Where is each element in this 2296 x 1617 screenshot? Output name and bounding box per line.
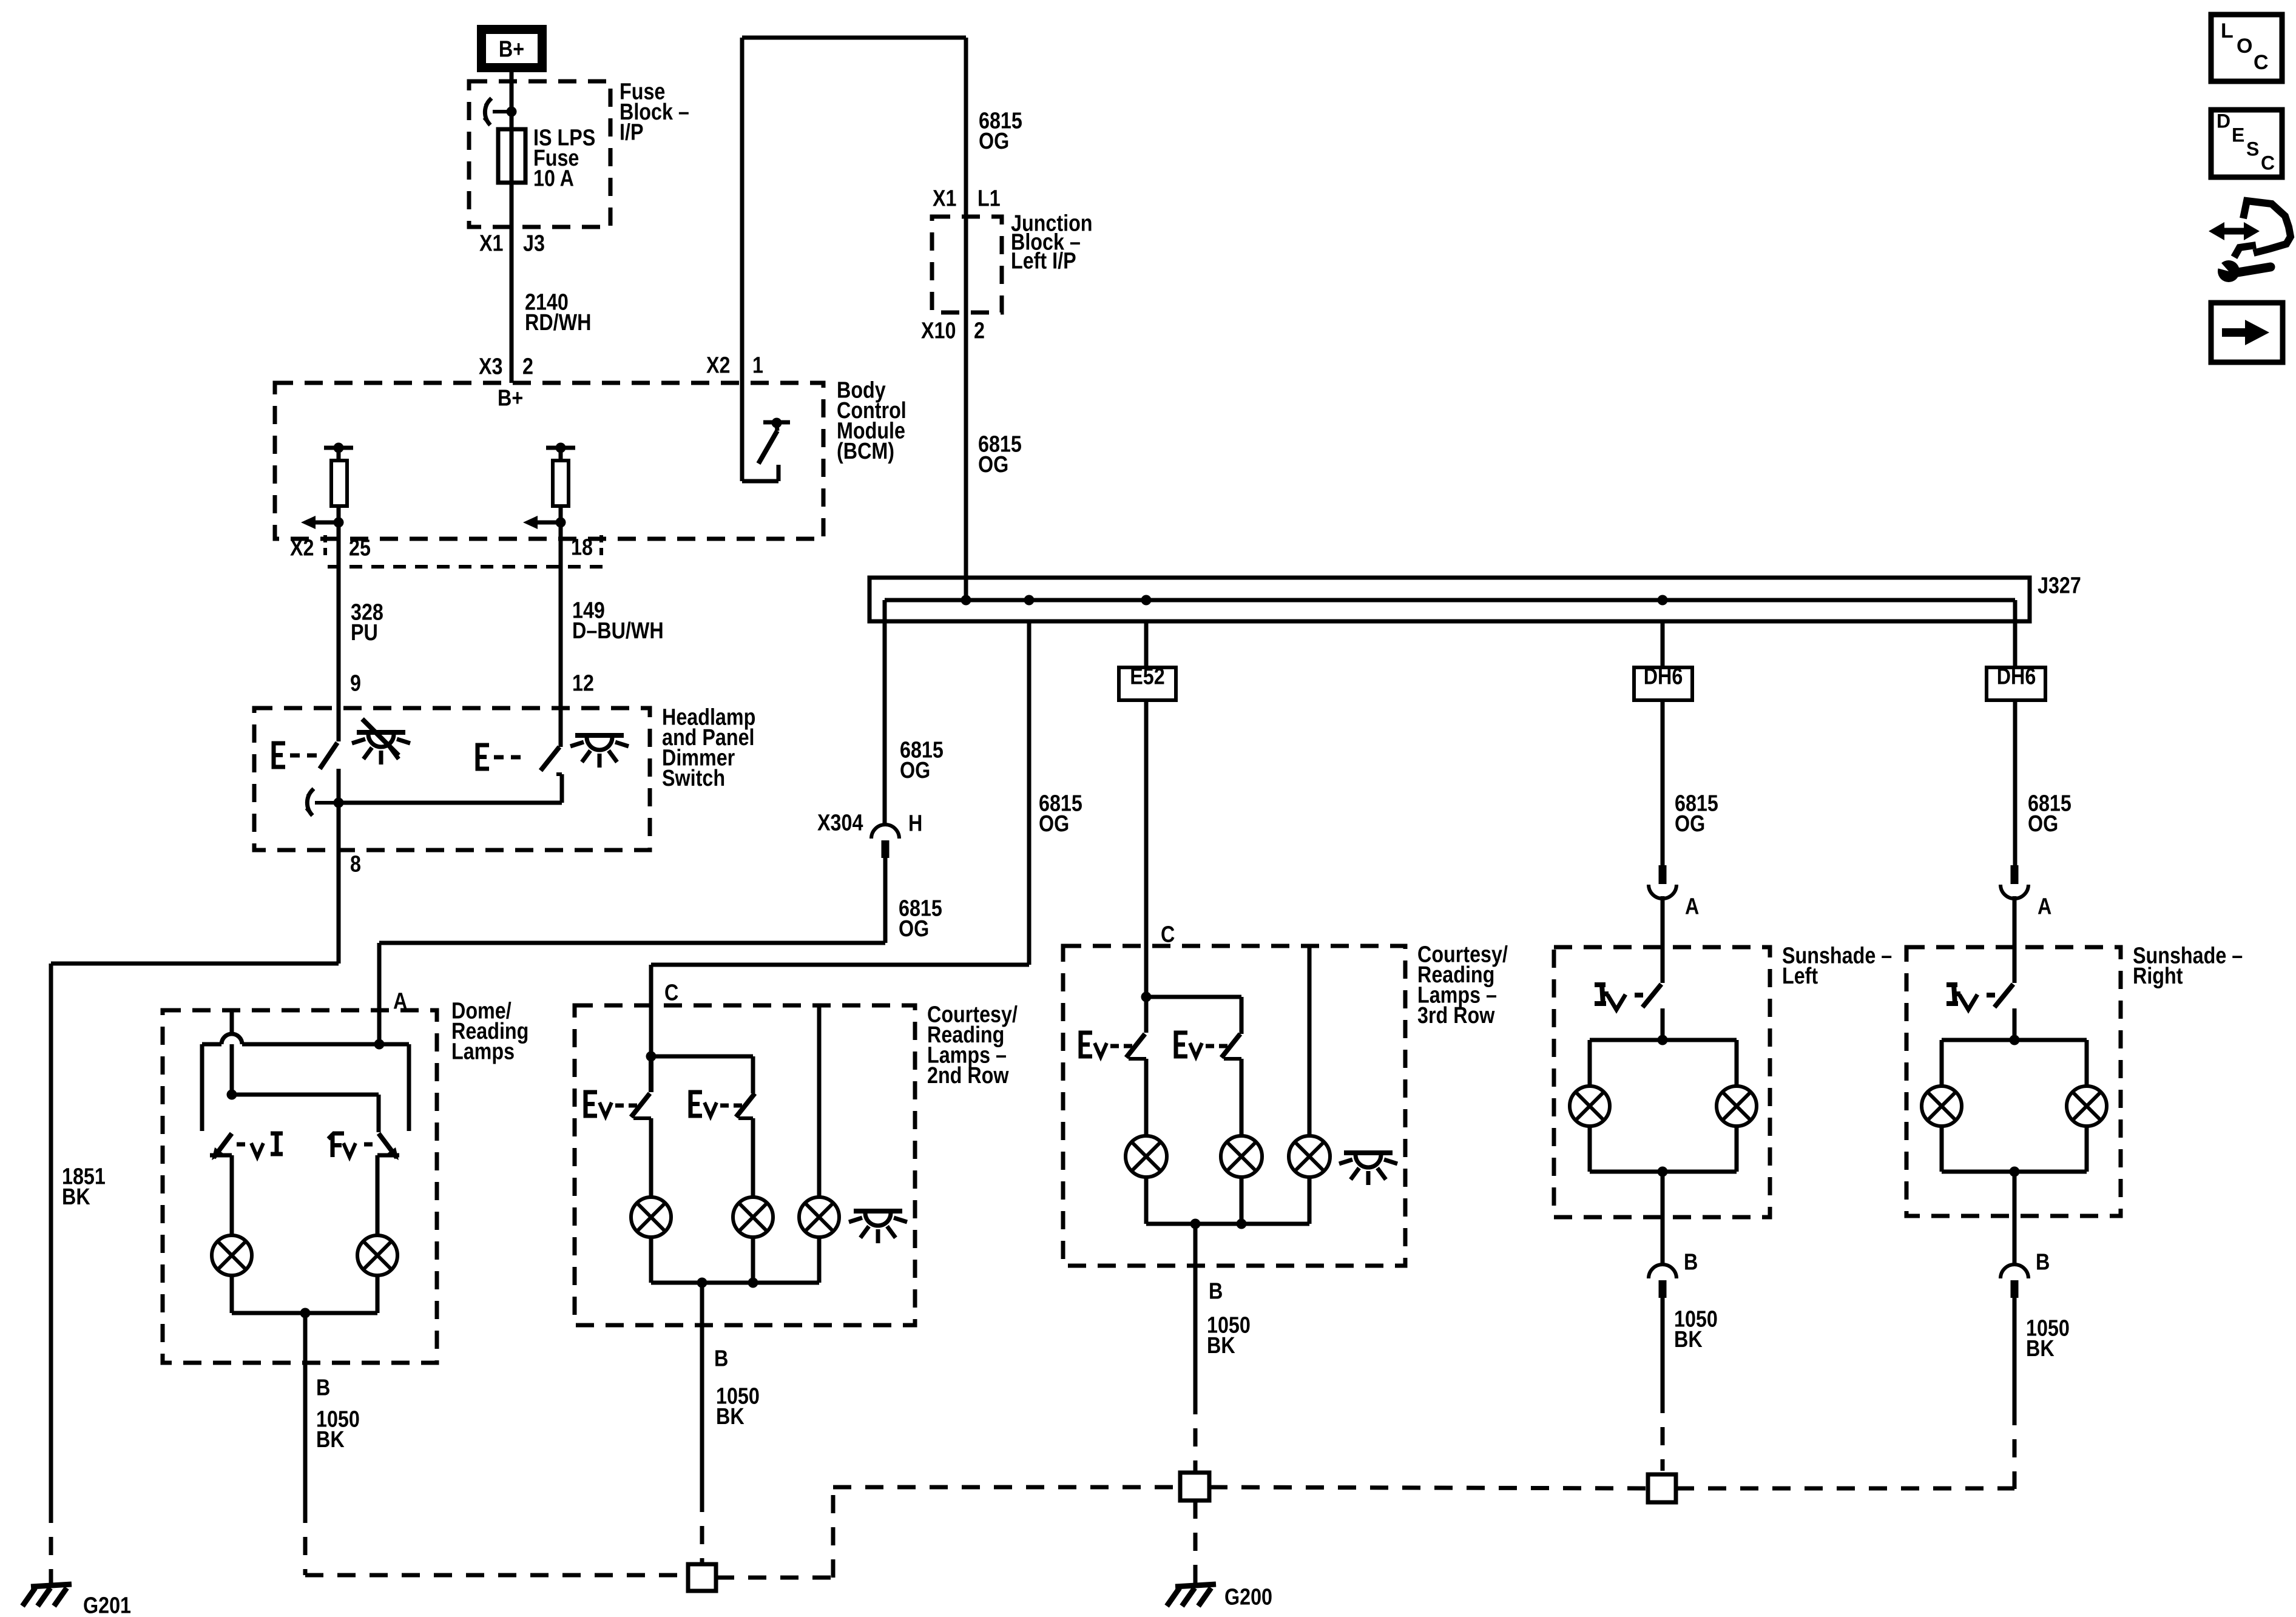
sunshade left lamp 1	[1570, 1086, 1610, 1126]
svg-text:OG: OG	[2028, 811, 2058, 837]
node sunshade right bottom junction	[2010, 1167, 2020, 1177]
node sunshade left bottom junction	[1658, 1167, 1668, 1177]
svg-text:X304: X304	[817, 810, 863, 836]
svg-text:G200: G200	[1224, 1584, 1272, 1610]
svg-text:O: O	[2237, 35, 2252, 58]
fuse F1 IS LPS 10A	[498, 129, 525, 183]
splice S1	[688, 1564, 716, 1591]
svg-text:8: 8	[350, 851, 361, 877]
Sunshade Left dashed box	[1554, 947, 1770, 1217]
sunshade right lamp 1	[1922, 1086, 1962, 1126]
BCM left output arrow	[312, 521, 339, 525]
dome bottom rail	[232, 1311, 377, 1315]
3rd row switch 1 icon E v dashes	[1081, 1033, 1092, 1056]
wire ground run G200 to sunshade left splice	[1209, 1487, 1648, 1488]
sunshade right lamp loop	[1942, 1038, 2087, 1042]
svg-text:OG: OG	[978, 452, 1008, 478]
BCM right load resistor branch pin 18	[546, 446, 575, 450]
svg-text:BK: BK	[316, 1427, 345, 1453]
wire 149 D-BU/WH BCM pin18 to dimmer pin12	[559, 539, 563, 747]
2nd row switch 1 icon E v dashes	[586, 1092, 597, 1116]
wire bus to DH6 right	[2013, 621, 2017, 865]
svg-text:L: L	[2221, 19, 2234, 42]
2nd row switch 1 contact	[633, 1116, 651, 1120]
svg-text:2nd Row: 2nd Row	[927, 1063, 1009, 1089]
wire BCM X2-1 up and over to junction block	[740, 38, 745, 481]
power symbol B+ battery feed box	[482, 30, 542, 68]
svg-text:Switch: Switch	[662, 766, 725, 791]
2nd row lamp 1	[631, 1197, 671, 1237]
dimmer right switch blade	[541, 747, 559, 771]
svg-text:C: C	[1161, 922, 1175, 947]
svg-text:C: C	[2261, 152, 2275, 174]
dimmer switch E icon left	[274, 743, 285, 767]
courtesy lamp icon 3rd row	[1344, 1150, 1393, 1155]
sunshade left lamp 2	[1717, 1086, 1757, 1126]
wire dimmer pin8 down	[337, 803, 341, 964]
connector A sunshade left	[1659, 865, 1667, 884]
panel lamp icon	[575, 733, 624, 738]
wire 6815 OG bus to X304	[883, 621, 887, 825]
dome left contact	[210, 1153, 232, 1158]
svg-text:X2: X2	[706, 353, 730, 378]
wire 328 PU BCM pin25 to dimmer pin9	[337, 539, 341, 741]
wire ground run splice S2 to sunshade right	[1676, 1487, 2014, 1491]
node 3rd row lamp2 junction	[1237, 1219, 1247, 1229]
svg-text:A: A	[2038, 894, 2051, 919]
svg-text:B: B	[714, 1346, 728, 1371]
wire ground run corner to G200 splice	[833, 1485, 1180, 1490]
node bus junction E52 drop	[1141, 595, 1152, 606]
svg-text:OG: OG	[979, 129, 1009, 154]
wire B+ to fuse	[510, 72, 514, 130]
3rd row switch 1 blade	[1144, 997, 1149, 1033]
dome lamp left	[212, 1235, 252, 1275]
dome right switch icon F v dash	[328, 1133, 344, 1157]
wire bus to DH6 left	[1661, 621, 1665, 865]
svg-text:OG: OG	[1039, 811, 1069, 837]
svg-text:G201: G201	[83, 1593, 131, 1617]
sunshade right switch blade	[1994, 984, 2013, 1007]
wire through junction block	[964, 218, 968, 600]
node bus junction DH6 left drop	[1658, 595, 1668, 606]
BCM left load resistor branch pin 25	[324, 446, 353, 450]
node 2nd row B junction	[697, 1278, 707, 1288]
node dome switch feed junction	[227, 1090, 237, 1100]
Body Control Module BCM dashed box	[275, 383, 823, 539]
legend icon hand with arrow and wrench	[2243, 201, 2291, 253]
Dome Reading Lamps dashed box	[163, 1010, 437, 1363]
svg-text:X3: X3	[479, 354, 502, 379]
svg-text:B+: B+	[499, 36, 524, 62]
connector B sunshade left	[1649, 1264, 1676, 1278]
Courtesy Reading Lamps 2nd Row dashed box	[575, 1005, 915, 1325]
3rd row bottom rail	[1146, 1222, 1309, 1226]
wire bus to E52 to 3rd row	[1144, 621, 1149, 997]
wire G200 splice down to ground	[1194, 1501, 1198, 1579]
svg-text:BK: BK	[716, 1404, 745, 1430]
node 3rd row C junction	[1141, 992, 1152, 1002]
dome right contact	[377, 1153, 399, 1158]
node sunshade right top junction	[2010, 1035, 2020, 1045]
wire 3rd row B 1050 BK	[1194, 1224, 1198, 1396]
svg-text:X10: X10	[921, 318, 956, 343]
node dimmer common junction	[334, 798, 344, 808]
dome stub with crossover hop	[230, 1010, 234, 1035]
node 2nd row lamp2 junction	[748, 1278, 758, 1288]
node bus junction feed	[961, 595, 971, 606]
connector B sunshade right	[2001, 1264, 2028, 1278]
Headlamp and Panel Dimmer Switch dashed box	[254, 708, 650, 850]
3rd row switch 2 contact	[1224, 1057, 1241, 1061]
svg-text:Left I/P: Left I/P	[1011, 248, 1076, 274]
svg-text:B: B	[2036, 1249, 2050, 1275]
fuse pull tab icon	[485, 98, 491, 125]
svg-text:D–BU/WH: D–BU/WH	[572, 618, 664, 644]
wire 6815 OG X304 to dome lamp A	[883, 858, 888, 943]
svg-text:E: E	[2232, 124, 2244, 146]
3rd row lamp 2	[1221, 1136, 1262, 1177]
dimmer lower contacts and common	[556, 772, 562, 776]
svg-text:C: C	[664, 980, 678, 1005]
svg-text:Lamps: Lamps	[451, 1039, 515, 1064]
wire 1050 BK sunshade left to splice	[1661, 1297, 1665, 1395]
legend icon DESC box	[2211, 110, 2282, 177]
connector X2 ticks and boundary	[323, 535, 327, 559]
sunshade left switch blade	[1643, 984, 1661, 1007]
wire 1050 BK sunshade right to splice	[2013, 1297, 2017, 1407]
legend icon LOC box	[2211, 15, 2282, 81]
panel lamp icon with slash	[357, 730, 405, 735]
dome inner frame top rail	[202, 1042, 221, 1047]
wire 1851 BK to ground G201	[51, 962, 339, 966]
wire ground run dome B to splice S1	[305, 1573, 688, 1578]
svg-text:2: 2	[974, 318, 985, 343]
svg-text:X1: X1	[933, 186, 956, 211]
3rd row switch 2 blade	[1221, 1034, 1240, 1058]
node 2nd row C junction	[646, 1052, 657, 1062]
sunshade left switch icon	[1595, 985, 1609, 1004]
svg-text:2: 2	[522, 354, 533, 379]
legend icon next-page arrow box	[2211, 303, 2283, 362]
wire 6815 OG bus to 2nd row C	[1027, 621, 1032, 965]
BCM internal switch	[763, 420, 790, 425]
dome right switch blade	[379, 1133, 397, 1158]
wire dome B 1050 BK	[303, 1313, 308, 1505]
wire fuse to BCM X3-2	[510, 183, 514, 383]
Junction Block Left I/P dashed box	[932, 217, 1002, 312]
svg-text:10 A: 10 A	[533, 166, 574, 191]
svg-text:B: B	[316, 1375, 330, 1400]
svg-text:X2: X2	[290, 535, 314, 561]
svg-text:3rd Row: 3rd Row	[1417, 1003, 1495, 1028]
dimmer left switch blade	[320, 743, 337, 769]
svg-text:1: 1	[752, 353, 763, 378]
wire sunshade right B	[2013, 1172, 2017, 1264]
node 3rd row B junction	[1190, 1219, 1201, 1229]
2nd row lamp 3 always on	[817, 1005, 822, 1197]
svg-text:OG: OG	[899, 916, 929, 942]
dimmer switch E icon right	[478, 745, 489, 769]
node fuse feed junction	[507, 107, 517, 117]
svg-text:E52: E52	[1130, 664, 1164, 689]
wire ground run splice S1 to corner	[716, 1576, 833, 1580]
node bus junction 2nd row drop	[1024, 595, 1035, 606]
2nd row lamp 2	[733, 1197, 773, 1237]
svg-text:RD/WH: RD/WH	[525, 310, 591, 336]
svg-text:(BCM): (BCM)	[837, 439, 894, 464]
2nd row bottom rail	[651, 1281, 819, 1285]
svg-text:DH6: DH6	[1644, 664, 1683, 689]
2nd row switch 1 blade	[649, 1056, 653, 1092]
svg-text:BK: BK	[62, 1184, 90, 1210]
svg-text:12: 12	[572, 670, 594, 696]
node dome B junction	[300, 1308, 311, 1318]
svg-text:B: B	[1209, 1278, 1223, 1304]
Courtesy Reading Lamps 3rd Row dashed box	[1063, 946, 1405, 1266]
harness label DH6 right	[1987, 667, 2045, 700]
svg-text:X1: X1	[479, 231, 503, 256]
node sunshade left top junction	[1658, 1035, 1668, 1045]
sunshade left lamp loop	[1590, 1038, 1737, 1042]
sunshade right switch icon	[1947, 985, 1960, 1004]
2nd row switch 2 contact	[738, 1116, 753, 1120]
dimmer pull tab icon	[307, 789, 314, 815]
svg-text:PU: PU	[351, 620, 378, 646]
ground G200	[1194, 1579, 1198, 1585]
svg-text:A: A	[1685, 894, 1699, 919]
svg-text:Right: Right	[2133, 964, 2183, 989]
svg-text:J327: J327	[2038, 573, 2081, 598]
svg-text:BK: BK	[1674, 1327, 1703, 1352]
svg-text:B: B	[1684, 1249, 1698, 1275]
3rd row switch 1 contact	[1129, 1057, 1146, 1061]
ground G201	[49, 1579, 53, 1585]
svg-text:C: C	[2254, 51, 2269, 74]
harness label DH6 left	[1634, 667, 1692, 700]
svg-text:L1: L1	[977, 186, 1001, 211]
svg-text:I/P: I/P	[620, 120, 643, 145]
courtesy lamp icon 2nd row	[854, 1209, 902, 1214]
sunshade right lamp 2	[2067, 1086, 2107, 1126]
connector A sunshade right	[2011, 865, 2019, 884]
svg-text:S: S	[2246, 138, 2259, 160]
wire sunshade left B	[1661, 1172, 1665, 1264]
dome lamp right	[357, 1235, 397, 1275]
svg-text:H: H	[908, 811, 922, 836]
svg-text:J3: J3	[523, 231, 545, 256]
svg-text:Left: Left	[1782, 964, 1818, 989]
svg-text:D: D	[2217, 110, 2230, 132]
harness label E52	[1119, 667, 1176, 700]
3rd row lamp 3 always on	[1308, 946, 1312, 1136]
wire 2nd row B 1050 BK	[700, 1283, 704, 1494]
BCM right output arrow	[534, 521, 561, 525]
fuse block dashed box - Fuse Block I/P	[469, 81, 610, 227]
svg-text:B+: B+	[498, 385, 523, 411]
dome left switch blade	[214, 1133, 232, 1158]
svg-text:BK: BK	[1207, 1333, 1235, 1359]
svg-text:18: 18	[571, 535, 593, 560]
splice G200 junction	[1180, 1473, 1209, 1501]
Sunshade Right dashed box	[1906, 947, 2121, 1216]
svg-text:BK: BK	[2026, 1336, 2055, 1362]
node dome A junction	[374, 1039, 385, 1050]
svg-text:OG: OG	[900, 758, 930, 783]
svg-text:25: 25	[349, 535, 371, 561]
dome left switch icon dash v I	[237, 1143, 245, 1147]
3rd row switch 2 icon E v dashes	[1176, 1033, 1187, 1056]
svg-text:DH6: DH6	[1997, 664, 2036, 689]
svg-text:OG: OG	[1675, 811, 1705, 837]
splice S2 sunshade left	[1648, 1474, 1676, 1502]
2nd row switch 2 blade	[736, 1093, 755, 1117]
2nd row switch 2 icon E v dashes	[690, 1092, 702, 1116]
splice pack J327 bus	[869, 578, 2030, 621]
3rd row lamp 1	[1126, 1136, 1167, 1177]
svg-text:9: 9	[350, 670, 361, 696]
